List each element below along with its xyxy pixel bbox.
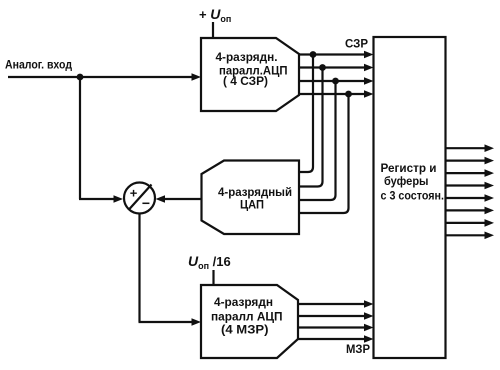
summing node (subtractor) (124, 183, 155, 214)
wire ADC1 output bit1 (298, 51, 374, 59)
svg-text:4-разрядн: 4-разрядн (214, 295, 273, 309)
wire ADC1 output bit3 (298, 77, 374, 85)
power label +Uоп (199, 6, 231, 24)
block register: Регистр и буферы с 3 состоян. (374, 37, 446, 358)
wire register output 6 (446, 207, 495, 215)
svg-text:МЗР: МЗР (346, 342, 370, 356)
svg-text:СЗР: СЗР (345, 37, 368, 51)
svg-text:ЦАП: ЦАП (240, 198, 264, 212)
wire ADC2 output bit2 (297, 312, 374, 320)
wire register output 2 (446, 157, 495, 165)
svg-text:буферы: буферы (384, 174, 429, 188)
wire register output 8 (446, 232, 495, 240)
wire ADC1 output bit2 (298, 64, 374, 72)
wire branch down to summer (79, 77, 123, 203)
wire Uоп/16 to lower ADC (212, 270, 214, 286)
wire register output 5 (446, 194, 495, 202)
block ADC2: 4-разрядн паралл АЦП (4 МЗР) (201, 285, 298, 358)
wire ADC2 output bit3 (297, 324, 374, 332)
wire bit1 to DAC (299, 55, 313, 173)
node junction bit2 (319, 64, 326, 71)
wire analog input (8, 73, 201, 81)
wire +Uоп to top ADC (212, 22, 214, 39)
svg-text:4-разрядн.: 4-разрядн. (216, 50, 278, 64)
wire register output 4 (446, 182, 495, 190)
wire bit4 to DAC (299, 94, 349, 213)
svg-text:+: + (130, 186, 138, 201)
svg-text:Аналог. вход: Аналог. вход (5, 58, 72, 72)
wire register output 1 (446, 144, 495, 152)
node label: Аналог. вход (5, 58, 72, 72)
power label Uоп/16 (188, 253, 231, 271)
block DAC: 4-разрядный ЦАП (202, 161, 300, 235)
node junction bit3 (332, 78, 339, 85)
wire bit3 to DAC (299, 81, 336, 200)
svg-text:паралл АЦП: паралл АЦП (211, 310, 283, 324)
node junction bit1 (310, 51, 317, 58)
node junction bit4 (345, 91, 352, 98)
wire ADC1 output bit4 (298, 90, 374, 98)
wire summer output to lower ADC (139, 214, 202, 326)
svg-text:−: − (142, 195, 150, 211)
node junction analog input (77, 74, 84, 81)
wire DAC output to summer (156, 195, 203, 203)
wire register output 3 (446, 169, 495, 177)
block ADC1: 4-разрядн. паралл. АЦП (4 СЗР) (201, 38, 299, 111)
wire bit2 to DAC (299, 68, 323, 187)
wire ADC2 output bit4 (297, 335, 374, 343)
svg-text:Регистр и: Регистр и (381, 161, 437, 175)
svg-text:с 3 состоян.: с 3 состоян. (381, 189, 445, 203)
svg-text:(4 МЗР): (4 МЗР) (221, 323, 269, 337)
net label СЗР (345, 37, 368, 51)
svg-text:( 4 СЗР): ( 4 СЗР) (223, 74, 268, 88)
wire ADC2 output bit1 (297, 300, 374, 308)
net label МЗР (346, 342, 370, 356)
svg-text:Uоп /16: Uоп /16 (188, 253, 231, 271)
wire register output 7 (446, 219, 495, 227)
